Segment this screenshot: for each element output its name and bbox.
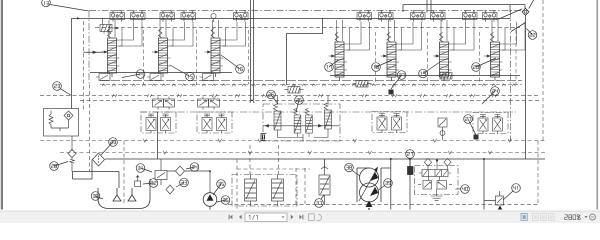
relief valve assembly A [285,85,304,93]
dashed pilot line A [40,139,545,142]
callout 24 [482,87,499,104]
callout 40 [456,185,470,194]
wire valve37 riser [324,159,326,168]
enclosure hatched bottom boundary [100,84,522,86]
toolbar zoom menu caret [585,216,588,218]
wire vertical at motor right [390,159,392,210]
junction dots valve bus [112,18,495,20]
pilot valve pair A [153,97,175,110]
callout 36 [217,196,230,205]
left scroll edge [0,0,3,211]
check valve with spring [68,150,76,172]
pilot valve pair B [198,97,220,110]
callout 17 [325,60,338,71]
toolbar history icons [309,214,322,221]
compensator spool A [245,174,257,206]
main spool section S6 [433,33,452,82]
callout 31 [136,164,152,173]
toolbar page box [245,213,287,222]
cluster small box right [438,118,447,140]
dashed pilot line B [60,151,545,154]
callout 30 [91,192,103,201]
suction filter diamond [93,153,105,166]
pilot valve under S3 [200,74,214,81]
toolbar layout icon 4 [549,214,555,221]
solenoid valve V11 [483,11,498,22]
solenoid valve V1 [110,11,125,22]
pilot valve under S1 [96,74,110,81]
junction dot pump riser [209,170,211,172]
dashed return line [80,100,540,102]
toolbar layout icon 3 [541,214,547,221]
wire riser bundle S5 [396,22,422,50]
solenoid valve V9 [431,11,446,22]
toolbar background [0,210,600,224]
wire center step path [286,18,322,84]
toolbar last-page button [299,215,303,220]
enclosure dashed left line [83,21,85,112]
main spool section S4 [329,33,348,82]
dashed vertical mid-bottom A [295,168,297,204]
dash-dot mid frame line [140,111,516,113]
solenoid valve V6 [357,11,372,22]
callout 33 [176,178,188,187]
check diamond 33 [166,185,174,194]
callout 27c [406,150,415,166]
wire riser bundle S3 [220,22,246,46]
reservoir tank [98,188,150,209]
component 32 on tank [135,176,141,187]
solenoid valve V5 [234,11,249,22]
toolbar zoom-out button [590,214,596,220]
callout 22 [527,29,537,40]
wire left vertical feed [72,17,81,108]
callout 29 [101,138,117,155]
top-right diamond [498,0,534,32]
enclosure dash-dot top border [89,10,528,12]
double pilot valve assembly D3 [377,114,402,133]
callout 16 [221,55,244,73]
right scroll edge [597,0,599,211]
assembly D4 enclosure [473,113,508,134]
wire risers spool S7 [492,20,505,50]
solenoid valve V2 [131,11,146,22]
callout 15 [170,65,194,81]
wire main top bus [72,17,511,19]
callout 18 [372,60,392,71]
solenoid valve V7 [379,11,394,22]
valve 31 body [155,159,167,185]
hatched bracket left [100,18,119,33]
dashed vertical near pump box [236,159,238,210]
valve 41 body [484,191,504,210]
inline filter dark [408,159,414,210]
wire riser bundle S4 [344,22,370,50]
wire risers spool S1 [109,20,122,46]
callout 23 [53,82,72,96]
relief valve assembly B [353,81,372,88]
wire filter connections [73,159,151,179]
main spool section S1 [101,29,120,78]
dashed vertical x89 lower [89,85,91,172]
wire riser bundle S7 [500,22,526,50]
wire risers spool S6 [441,20,454,50]
solenoid valve V3 [160,11,175,22]
wire risers spool S2 [160,20,173,46]
wire vertical at valve41 [483,159,485,210]
callout 41 [503,184,520,200]
callout 34 [186,163,199,172]
wire center feed pair [250,0,254,103]
single pilot valve circle [211,10,216,22]
callout 25 [267,90,278,104]
wire bank lower bus [100,80,522,82]
wire risers spool S3 [213,20,226,46]
pressure valve column P2 [294,108,301,137]
main spool section S7 [484,33,503,82]
callout 35 [213,180,225,195]
solenoid valve V8 [411,11,426,22]
dashed pump box top line [237,168,310,170]
main spool section S3 [205,29,224,78]
callout 37 [315,195,324,207]
junction dot center [241,17,243,19]
wire mid bus left [90,72,232,74]
wire risers spool S4 [337,20,350,50]
compensator spool B [272,174,284,206]
pilot filter dark A [389,90,394,95]
toolbar next button [291,215,294,220]
callout 32 [143,179,158,188]
double pilot valve assembly D4 [478,115,503,134]
callout 27 [391,71,406,89]
wire riser bundle S6 [449,22,475,50]
toolbar zoom percent [565,215,581,220]
toolbar layout icon 2 [533,214,539,221]
dashed vertical mid-bottom B [304,168,306,204]
pressure valve column P1 [274,104,282,134]
callout 39 [379,179,393,190]
dashed risers pump box [250,145,278,175]
main pump [203,193,217,210]
wire left solid vertical mid [157,112,159,159]
toolbar layout icon active [521,214,527,221]
pressure valve column P4 [324,103,332,133]
wire riser bundle S1 [117,22,143,46]
cluster crossline [263,125,340,127]
pilot valve under S2 [147,74,161,81]
assembly D1 enclosure [141,112,176,133]
wire mid bus right [330,75,520,77]
wire left supply branch [84,51,104,53]
main spool section S2 [152,29,171,78]
callout 13 [42,0,89,11]
callout 26 [295,96,304,112]
drain dashed line with ticks [40,94,540,97]
check diamond 34 [167,166,210,193]
callout 20 [472,58,496,71]
enclosure dashed line under valves [95,27,520,29]
wire riser bundle S2 [168,22,194,46]
cluster left bracket [261,134,267,141]
double pilot valve assembly D2 [202,114,227,133]
solenoid valve V10 [463,11,478,22]
wire bottom main bus [150,158,545,160]
assembly D2 enclosure [197,112,232,133]
valve 37 spool [319,167,330,206]
enclosure dashed right-lower vertical [537,141,539,204]
wire staircase to tank [73,172,151,189]
enclosure dash-dot right border [510,11,512,141]
pilot filter dark B [474,135,479,140]
cluster feeds [278,96,329,105]
assembly D3 enclosure [372,112,407,133]
brake valve assembly [415,158,459,200]
enclosure dashed far right vertical [542,0,544,141]
center cluster frame [263,104,340,141]
pressure valve column P3 [305,108,312,137]
wire right vertical main [525,15,527,159]
dashed section dividers [144,30,517,85]
pump control box [232,175,297,207]
wire risers spool S5 [389,20,402,50]
double pilot valve assembly D1 [146,114,171,133]
junction dots bottom bus [390,158,485,160]
top bridge wire [403,0,525,13]
cluster bottom jogs [278,133,329,141]
callout 27 [464,115,476,135]
filter unit box [44,109,79,152]
callout 14 [122,70,145,79]
toolbar prev button [239,215,242,220]
callout 28 [50,162,68,171]
enclosure dash-dot left border [88,11,90,85]
toolbar first-page button [229,215,233,220]
variable motor unit [357,167,391,214]
dashed tank suction vertical [123,141,125,205]
callout 38 [345,163,360,176]
relief valve assembly C [437,73,456,80]
callout 19 [419,62,440,78]
solenoid valve V4 [181,11,196,22]
main spool section S5 [381,33,400,82]
enclosure dashed bottom line [228,204,538,206]
